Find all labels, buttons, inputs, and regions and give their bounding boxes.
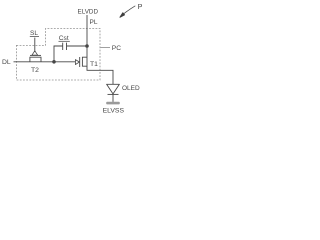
capacitor Cst right wire bbox=[67, 45, 87, 47]
junction node dot at Cst tap on data wire bbox=[52, 60, 56, 64]
svg-text:ELVSS: ELVSS bbox=[103, 108, 125, 115]
capacitor Cst plates bbox=[63, 43, 67, 50]
svg-text:T1: T1 bbox=[90, 61, 98, 68]
power line PL (vertical wire) bbox=[86, 15, 88, 57]
ELVSS terminal bar bbox=[106, 102, 120, 105]
T2 gate bar bbox=[30, 54, 41, 56]
T1 drain wire down and right to OLED bbox=[87, 57, 113, 84]
svg-text:DL: DL bbox=[2, 59, 11, 66]
OLED cathode wire bbox=[112, 94, 114, 102]
transistor T2 channel bump bbox=[30, 57, 41, 62]
PC leader line bbox=[101, 47, 111, 49]
T2 gate triangle bbox=[32, 51, 38, 55]
T1 gate bar bbox=[79, 57, 81, 67]
OLED cathode bar bbox=[108, 93, 119, 95]
svg-text:P: P bbox=[138, 2, 143, 11]
svg-text:PC: PC bbox=[112, 45, 121, 52]
svg-text:PL: PL bbox=[90, 19, 98, 26]
data line wire DL to T1 gate bbox=[14, 61, 76, 63]
OLED diode triangle (anode) bbox=[107, 84, 120, 94]
Cst underline bbox=[59, 40, 70, 42]
arrow leader line to P bbox=[124, 6, 136, 14]
junction node dot on PL bbox=[85, 44, 89, 48]
scan line lead to T2 gate bbox=[34, 38, 36, 51]
pixel circuit boundary PC (dashed box with notch) bbox=[16, 29, 100, 81]
transistor T1 channel bump bbox=[82, 57, 87, 66]
T1 gate lead triangle bbox=[75, 60, 79, 65]
svg-text:OLED: OLED bbox=[122, 85, 140, 92]
SL underline bbox=[30, 36, 39, 38]
capacitor Cst left drop wire bbox=[54, 46, 63, 62]
svg-text:T2: T2 bbox=[31, 67, 39, 74]
svg-text:ELVDD: ELVDD bbox=[78, 9, 99, 16]
arrow head bbox=[120, 13, 125, 18]
svg-text:SL: SL bbox=[30, 30, 38, 37]
